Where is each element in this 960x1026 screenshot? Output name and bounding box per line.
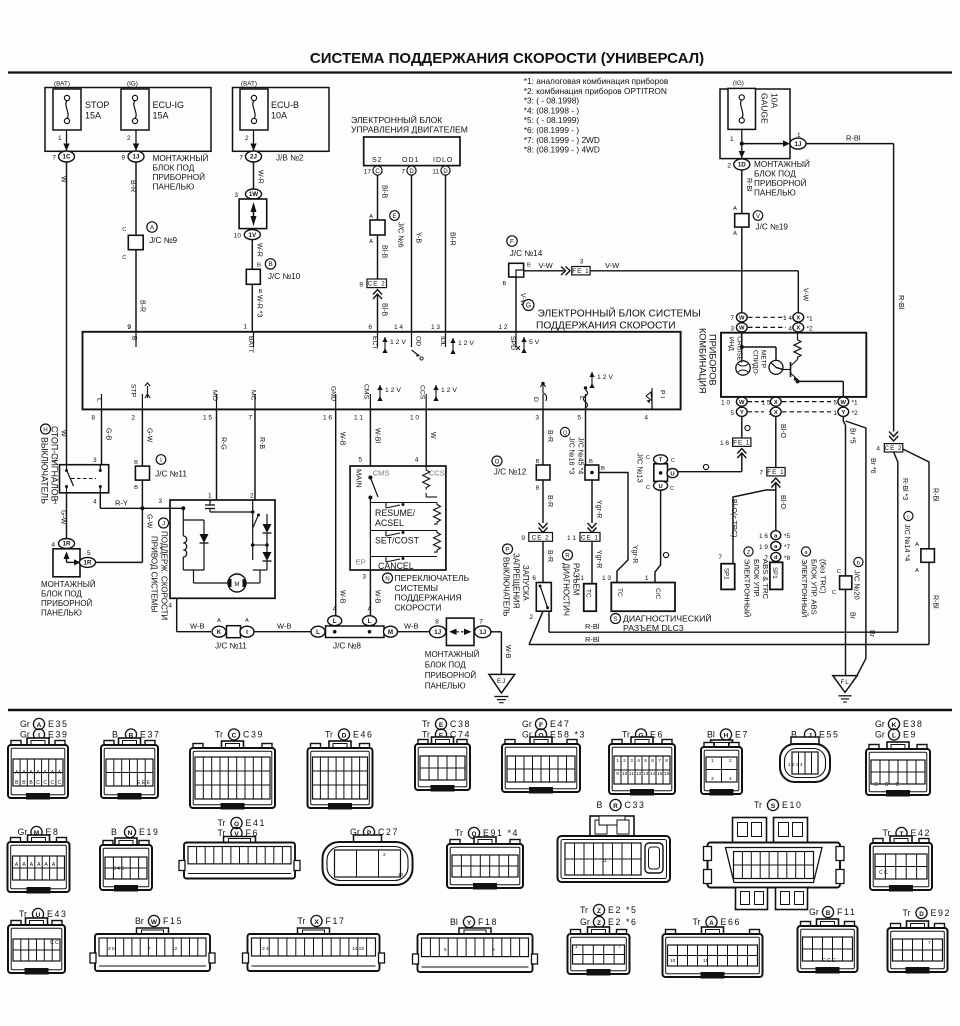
wire Bl-R from IDLO to main block pin 13 [431,175,456,332]
cluster pin row bottom: 5 Y 3 X -- 1 Y *2 [730,407,858,417]
engine ECU block [364,137,460,166]
svg-text:Y: Y [467,920,472,927]
svg-text:2: 2 [131,415,135,422]
node 1J (W-B) [430,619,446,638]
svg-text:W: W [151,919,158,926]
J/C No11 (bus) [212,626,254,651]
pin 10 CCS (bottom) [410,385,457,422]
engine ECU label [351,114,468,135]
svg-text:16: 16 [664,771,670,777]
wire R-Bl *3 from CE2 to line 1 [894,452,908,632]
svg-text:3: 3 [630,758,633,764]
wire into lamp + junction [740,333,776,361]
wire B-R J/C12 to CE2 [539,480,554,533]
svg-text:Bl-O: Bl-O [779,495,786,510]
svg-text:15: 15 [657,771,663,777]
svg-text:(BAT): (BAT) [241,81,257,88]
svg-text:G-B: G-B [105,428,112,441]
svg-text:F17: F17 [326,916,346,926]
svg-text:1 1: 1 1 [354,415,363,422]
svg-text:5: 5 [87,550,91,557]
svg-text:B: B [268,261,272,268]
svg-text:1 3: 1 3 [602,575,611,582]
cruise control switch block [350,466,446,570]
svg-text:1W: 1W [249,191,258,198]
svg-text:ECU-IG: ECU-IG [153,100,185,110]
svg-text:Z: Z [747,550,751,556]
svg-text:3: 3 [158,498,162,505]
pin 6 ECT internal [371,336,406,353]
connector Z E2 [568,904,638,975]
svg-text:ЗАПРЕЩЕНИЯ: ЗАПРЕЩЕНИЯ [512,553,521,608]
svg-text:W-B: W-B [277,622,291,631]
actuator interior [183,500,271,592]
svg-text:N: N [385,575,389,582]
connector A/I E35 E39 [8,718,68,799]
svg-text:Gr: Gr [875,730,885,740]
wire R-Bl J/C14 to line 2 [915,562,938,644]
svg-text:(BAT): (BAT) [54,81,70,88]
svg-text:CCS: CCS [429,469,445,478]
wire G-W J/C11 to junction [142,480,152,529]
connector C C39 [190,729,275,810]
svg-text:E55: E55 [819,730,839,740]
connector B E37 [101,729,160,800]
pin 3 D (bottom) [532,382,547,422]
svg-text:W: W [60,430,67,437]
svg-text:7: 7 [479,619,483,626]
svg-text:CMS: CMS [373,469,390,478]
svg-text:C: C [50,780,54,786]
svg-text:3: 3 [234,192,238,199]
svg-text:J/C №16 *3: J/C №16 *3 [568,437,577,474]
svg-text:T: T [659,458,663,464]
connector M E8 [8,826,70,893]
svg-text:R-Bl: R-Bl [932,595,939,609]
svg-text:B: B [112,730,118,740]
svg-text:СИСТЕМЫ: СИСТЕМЫ [395,583,439,593]
svg-text:L: L [368,618,372,625]
svg-text:TC: TC [616,588,623,597]
wire W-B bus right [398,622,430,632]
svg-text:GAUGE: GAUGE [760,93,770,124]
svg-text:10: 10 [622,771,628,777]
svg-text:E66: E66 [721,917,741,927]
svg-text:7: 7 [239,155,243,162]
node 1D [727,159,749,170]
svg-text:ПРИБОРНОЙ: ПРИБОРНОЙ [41,599,93,608]
svg-text:*4: (08.1998 - ): *4: (08.1998 - ) [524,105,580,115]
wire pin 5 to J/C45 [586,409,594,465]
svg-text:Bl: Bl [707,730,715,740]
svg-text:7: 7 [401,169,405,176]
svg-text:8: 8 [435,619,439,626]
node 16 a *5 [759,531,791,541]
svg-text:БЛОК ПОД: БЛОК ПОД [754,170,796,179]
svg-text:ЭЛЕКТРОННЫЙ: ЭЛЕКТРОННЫЙ [743,559,752,617]
svg-text:4: 4 [415,457,419,464]
svg-text:P: P [505,546,509,553]
svg-text:СПИДО-: СПИДО- [752,350,759,376]
actuator label J [150,518,169,620]
pin 16 GND (bottom) [323,386,337,422]
svg-text:L: L [333,618,337,625]
svg-text:W-R: W-R [257,170,264,184]
node 2J [239,151,304,163]
svg-text:1: 1 [711,758,714,764]
wire FE1 to J/C13 horizontal O [678,449,746,472]
svg-text:Q: Q [563,430,568,436]
svg-text:L: L [316,629,320,636]
montage block (W-B to ground) [446,618,474,645]
svg-text:4: 4 [637,758,640,764]
svg-text:7: 7 [52,155,56,162]
svg-text:R: R [613,803,618,810]
svg-text:3 4: 3 4 [262,946,269,952]
svg-text:3 4 5: 3 4 5 [113,866,124,872]
svg-text:7: 7 [718,554,722,561]
svg-text:1 0: 1 0 [410,415,419,422]
boxed label FE1 (7) [759,468,785,477]
svg-text:*1: *1 [852,400,859,407]
wire R-Bl line 1 [549,611,898,632]
svg-text:C: C [36,780,40,786]
svg-text:14: 14 [650,771,656,777]
svg-text:1: 1 [797,132,801,139]
svg-text:R-Bl: R-Bl [585,622,600,631]
svg-text:EP: EP [356,558,366,567]
svg-text:D: D [532,397,539,402]
svg-text:B: B [536,486,540,492]
svg-text:2: 2 [250,493,254,500]
wire R-Bl right vertical to CE2 [894,144,906,432]
control switch label N [383,573,470,612]
svg-text:R-G: R-G [220,437,227,450]
DLC3 label S [611,613,712,634]
junction block J/B left (montage block) [45,88,211,152]
connector U E43 [8,908,67,974]
wire Br J/C20 to FL ground [846,589,856,675]
svg-text:РАЗЪЕМ DLC3: РАЗЪЕМ DLC3 [623,623,684,633]
svg-text:W-B: W-B [339,590,346,604]
separator line above connector section [8,709,952,711]
wire Bl-B CE2 to main block pin 6 [368,290,387,332]
svg-text:1 2: 1 2 [498,324,507,331]
svg-text:G: G [526,302,531,309]
svg-text:B: B [597,800,603,810]
svg-text:*2: *2 [807,325,814,332]
svg-text:OD: OD [415,336,422,346]
svg-text:*3: ( - 08.1998): *3: ( - 08.1998) [524,96,580,106]
pin 2 STP (bottom) [130,383,151,422]
svg-text:2J: 2J [250,154,257,161]
wire Bl-O cluster 15X to FE1 7 [776,416,786,467]
wire W-B bus mid [254,622,311,632]
svg-text:E: E [392,214,396,220]
wire gauge pin 1 down [730,129,745,158]
pin 11 CMS (bottom) [354,384,401,422]
svg-text:*2: комбинация приборов OPTITR: *2: комбинация приборов OPTITRON [524,86,667,96]
svg-text:1 1: 1 1 [567,535,576,542]
svg-text:МОНТАЖНЫЙ: МОНТАЖНЫЙ [41,580,96,589]
junction block J/B right (gauge) [720,89,790,159]
svg-text:V-W: V-W [539,261,554,270]
svg-text:E35: E35 [48,719,68,729]
cluster resistor [794,333,801,360]
svg-text:R-Y: R-Y [115,499,128,508]
svg-text:9: 9 [521,535,525,542]
wire fuse STOP pin1 to connector 1C [58,130,70,151]
svg-text:STOP: STOP [85,100,109,110]
diagnostic connector TC1 [584,584,597,612]
svg-text:ПЕРЕКЛЮЧАТЕЛЬ: ПЕРЕКЛЮЧАТЕЛЬ [395,573,470,583]
wire R-G pin15 to actuator pin 1 [217,409,227,500]
svg-text:9: 9 [616,771,619,777]
svg-text:RESUME/: RESUME/ [375,508,416,518]
svg-text:F15: F15 [163,916,183,926]
svg-text:C: C [832,590,836,596]
svg-text:E2 *6: E2 *6 [608,917,638,927]
svg-text:C: C [58,780,62,786]
svg-text:9: 9 [127,324,131,331]
svg-text:W-R *3: W-R *3 [256,295,263,318]
svg-text:3: 3 [730,325,734,332]
svg-text:B-R: B-R [546,550,553,562]
boxed label FE1 (V-W) [572,259,590,275]
svg-text:6: 6 [368,324,372,331]
connector X F17 [243,915,385,971]
wire fuse ECU-B pin2 to 2J [245,130,257,151]
svg-text:Y-B: Y-B [415,232,422,243]
engine ECU pin 11 D [432,166,450,176]
svg-text:ВЫКЛЮЧАТЕЛЬ: ВЫКЛЮЧАТЕЛЬ [40,437,50,504]
svg-text:N: N [128,830,133,837]
svg-text:A: A [369,214,373,220]
connector SP1 (ABS) [770,562,783,589]
svg-text:FE 1: FE 1 [572,268,589,275]
svg-text:C: C [837,569,841,575]
svg-text:CANCEL: CANCEL [378,561,414,571]
svg-text:8: 8 [665,758,668,764]
svg-text:G-W: G-W [60,510,67,525]
svg-text:(IG): (IG) [127,81,138,88]
svg-text:EJ: EJ [497,678,506,685]
svg-text:Bl-B: Bl-B [381,303,388,317]
svg-text:C: C [671,458,675,464]
svg-text:5: 5 [730,410,734,417]
svg-text:G-W: G-W [145,428,152,443]
svg-text:R-Bl: R-Bl [846,134,861,143]
node 7 d *8 [764,552,790,562]
pin 8 L (bottom) [91,398,102,422]
svg-text:15A: 15A [85,111,101,121]
svg-text:A: A [733,231,737,237]
svg-text:E46: E46 [353,730,373,740]
svg-text:2: 2 [53,457,57,464]
svg-text:ПАНЕЛЬЮ: ПАНЕЛЬЮ [425,682,466,691]
svg-text:10: 10 [398,872,404,878]
cruise actuator block [158,493,275,610]
svg-text:M: M [235,582,240,588]
svg-text:9: 9 [121,155,125,162]
svg-text:D: D [919,911,924,918]
pin interior stubs (bottom edge) [102,394,653,409]
svg-text:1 5: 1 5 [203,415,212,422]
svg-text:7: 7 [148,946,151,952]
svg-text:B: B [536,459,540,465]
svg-text:B-R: B-R [546,495,553,507]
svg-text:S2: S2 [372,157,383,164]
svg-text:*8: *8 [784,555,791,562]
svg-text:3 5: 3 5 [108,946,115,952]
svg-text:7: 7 [730,315,734,322]
svg-text:b: b [857,560,860,566]
svg-text:*5: *5 [784,533,791,540]
engine ECU pin 17 C [364,166,382,176]
svg-text:A: A [245,618,249,624]
connector G E6 [609,729,675,796]
wire R-Bl line 2 [529,635,929,645]
wire G-W stop switch pin1 to 1R [60,493,67,539]
svg-text:C: C [232,732,237,739]
label montage block left [153,152,209,192]
svg-text:d: d [774,555,778,561]
svg-text:6: 6 [651,758,654,764]
svg-text:B: B [589,459,593,465]
svg-text:ЗАПУСКА: ЗАПУСКА [521,565,530,602]
svg-text:ПОДДЕРЖ. СКОРОСТИ: ПОДДЕРЖ. СКОРОСТИ [160,531,169,620]
svg-text:O: O [495,458,500,465]
svg-text:Gr: Gr [875,719,885,729]
svg-text:C39: C39 [243,730,264,740]
svg-text:Br: Br [849,612,856,620]
svg-text:ПАНЕЛЬЮ: ПАНЕЛЬЮ [41,609,82,618]
svg-text:SP1: SP1 [723,568,730,580]
svg-text:STP: STP [130,384,137,398]
svg-text:E7: E7 [735,730,749,740]
svg-text:FE 1: FE 1 [733,439,750,446]
svg-text:ЭЛЕКТРОННЫЙ: ЭЛЕКТРОННЫЙ [800,559,809,617]
svg-text:A: A [217,618,221,624]
node 1R out [80,550,96,567]
wire G-B pin8 to stop switch pin 3 [102,409,112,464]
svg-text:(IG): (IG) [733,80,744,87]
svg-text:1: 1 [730,136,734,143]
svg-text:11: 11 [432,169,439,176]
svg-text:Br *5: Br *5 [849,428,856,444]
wire W-Bl pin11 to switch CMS [358,409,380,466]
svg-text:5: 5 [358,457,362,464]
cluster pin row bottom: 10 W 15 X -- 5 W *1 [721,397,858,407]
wire O cluster 10W to FE1 16 [742,416,750,438]
start inhibit switch [529,583,551,622]
title [310,50,704,67]
svg-text:C: C [646,455,650,461]
svg-text:J/C №13: J/C №13 [636,453,645,483]
svg-text:ДИАГНОСТИЧЕСКИЙ: ДИАГНОСТИЧЕСКИЙ [623,613,712,624]
svg-text:1 6: 1 6 [323,415,332,422]
svg-text:Tr: Tr [215,730,223,740]
svg-text:1 2 V: 1 2 V [458,340,474,347]
montage block pass-through (2J chain) [239,199,267,229]
svg-text:1: 1 [645,575,649,582]
pin interior stubs (top edge) [136,332,516,347]
svg-text:R-Bl: R-Bl [585,635,600,644]
wire Bl-B from J/C6 to CE2 [369,235,387,279]
svg-text:J/C №9: J/C №9 [149,236,177,245]
svg-text:1R: 1R [63,541,71,548]
svg-text:1 6: 1 6 [720,440,729,447]
svg-text:C: C [43,780,47,786]
svg-text:F18: F18 [478,917,498,927]
svg-text:W-B: W-B [504,645,511,659]
svg-text:FL: FL [841,679,850,686]
svg-text:ПОДДЕРЖАНИЯ: ПОДДЕРЖАНИЯ [395,593,462,603]
svg-text:J/C №45 *4: J/C №45 *4 [577,437,586,474]
cluster pin row top: 3 W -- 4 X *2 [730,323,813,333]
connector b F11 [798,906,858,973]
wire V-W from FE1 to cluster pin 14X [590,261,808,313]
svg-text:КОМБИНАЦИЯ: КОМБИНАЦИЯ [698,328,708,393]
svg-text:1 2 V: 1 2 V [441,387,457,394]
svg-text:R: R [565,552,570,559]
svg-text:6: 6 [532,575,536,582]
svg-text:SET/COST: SET/COST [375,536,420,546]
svg-text:Y: Y [740,410,744,416]
svg-text:Tr: Tr [422,730,430,740]
svg-text:R-Bl: R-Bl [745,178,752,192]
svg-text:W-B: W-B [190,622,204,631]
svg-text:*5: ( - 08.1999): *5: ( - 08.1999) [524,115,580,125]
node 1J gauge [790,132,806,149]
svg-text:13: 13 [643,771,649,777]
combination meter label (rotated) [698,328,718,393]
wire R-B pin7 to actuator pin 2 [255,409,265,500]
svg-text:J/C №8: J/C №8 [333,642,361,651]
svg-text:*2: *2 [852,410,859,417]
stop light switch [53,457,108,506]
wire Y-B from OD1 to main block pin 14 [394,175,422,332]
wire W-B bus left [177,618,249,632]
svg-text:CCS: CCS [419,385,426,400]
fuse ECU-B 10A [240,81,299,131]
wire branch to 1J right [742,140,790,146]
cruise control ECU label G [523,300,701,332]
pin 14 OD internal [412,336,424,360]
diagnostic connector DLC3 [611,583,675,612]
wire W-B pin16 GND to J/C8 [336,409,346,615]
svg-text:K: K [217,629,222,636]
svg-text:1J: 1J [479,629,486,636]
svg-text:Tr: Tr [903,908,911,918]
svg-text:1J: 1J [795,141,802,148]
ABS TRC ECU label Z [743,547,771,617]
svg-text:8: 8 [91,415,95,422]
svg-text:СИСТЕМА ПОДДЕРЖАНИЯ СКОРОСТИ (: СИСТЕМА ПОДДЕРЖАНИЯ СКОРОСТИ (УНИВЕРСАЛ) [310,50,704,67]
svg-text:7: 7 [248,415,252,422]
connector SP1 (c TRC) [721,564,735,590]
svg-text:E9: E9 [903,730,917,740]
svg-text:J/C №14 *4: J/C №14 *4 [903,524,912,561]
connector W F15 [90,915,215,971]
svg-text:A: A [369,239,373,245]
svg-text:5: 5 [644,758,647,764]
svg-text:A: A [733,206,737,212]
svg-text:B-R: B-R [129,180,136,192]
node 1R [51,539,74,549]
svg-text:СКОРОСТИ: СКОРОСТИ [395,602,442,612]
montage block (1R) [53,549,81,577]
